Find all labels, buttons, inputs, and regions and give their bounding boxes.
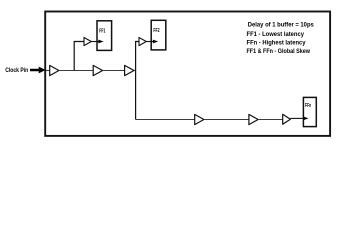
buffer 2 [84, 38, 91, 46]
svg-text:FF2: FF2 [153, 28, 159, 34]
wire [134, 70, 136, 72]
wire into FF2 [146, 40, 158, 44]
wire [204, 119, 249, 121]
note delay of 1 buffer [248, 22, 314, 29]
buffer 4 [125, 65, 134, 75]
flip-flop FF2 [151, 20, 166, 50]
svg-text:FFn: FFn [305, 103, 312, 109]
buffer 5 [139, 38, 146, 46]
wire [46, 70, 50, 72]
wire [136, 119, 195, 121]
svg-text:FF1: FF1 [99, 28, 105, 34]
clock network boundary box [45, 12, 330, 136]
flip-flop FF1 [97, 21, 112, 51]
Clock Pin input arrow [30, 67, 46, 74]
buffer 8 [283, 114, 291, 124]
wire into FFn [290, 117, 308, 121]
wire into FF1 [91, 40, 103, 44]
note FFn highest latency [247, 40, 306, 47]
note FF1 lowest latency [247, 31, 305, 38]
wire [59, 70, 93, 72]
wire [136, 42, 139, 120]
buffer 1 [50, 65, 59, 75]
note FF1 FFn global skew [247, 48, 311, 55]
buffer 3 [93, 65, 102, 75]
svg-text:FFn - Highest latency: FFn - Highest latency [247, 40, 306, 47]
svg-text:FF1 & FFn - Global Skew: FF1 & FFn - Global Skew [247, 48, 311, 55]
svg-text:FF1 - Lowest latency: FF1 - Lowest latency [247, 31, 305, 38]
wire [258, 119, 283, 121]
svg-text:Delay of 1 buffer = 10ps: Delay of 1 buffer = 10ps [248, 22, 314, 29]
buffer 6 [195, 114, 204, 124]
buffer 7 [249, 114, 258, 124]
wire [103, 70, 125, 72]
svg-text:Clock Pin: Clock Pin [5, 67, 28, 74]
flip-flop FFn [303, 97, 316, 126]
label Clock Pin [5, 67, 28, 74]
wire [74, 42, 84, 71]
